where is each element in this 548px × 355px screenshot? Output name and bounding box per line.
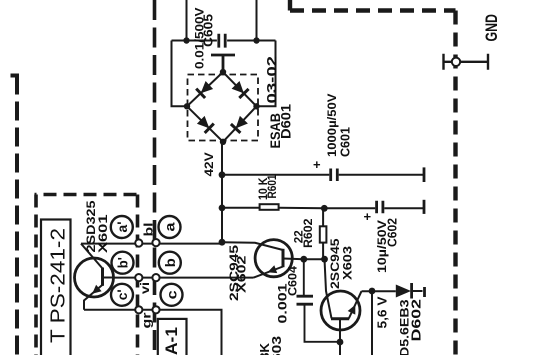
node 42V rail to X601 collector and X602 collector	[219, 239, 226, 246]
svg-text:03-02: 03-02	[265, 56, 280, 104]
svg-text:b': b'	[115, 257, 131, 268]
svg-text:0.001: 0.001	[276, 283, 290, 323]
diode zener D602	[396, 285, 411, 298]
wire 42V rail	[221, 142, 223, 242]
svg-text:1000µ/50V: 1000µ/50V	[325, 94, 339, 158]
node 42V rail to C601	[219, 171, 226, 178]
transformer module dashed box	[35, 195, 138, 355]
capacitor C602	[377, 201, 383, 213]
wire AC feed left	[186, 0, 188, 41]
node X602 base / C604	[300, 256, 307, 263]
resistor R602	[322, 208, 324, 259]
connector circle c	[161, 284, 183, 306]
wire AC feed right	[256, 0, 258, 41]
svg-text:gr: gr	[140, 312, 154, 328]
terminal D602 end	[423, 287, 426, 297]
wire X602 base to node	[283, 258, 325, 261]
node AC feed left junction	[183, 37, 189, 43]
transistor X601	[75, 244, 114, 310]
bridge diamond wires	[187, 72, 257, 142]
svg-text:+: +	[313, 157, 321, 172]
left module border	[11, 76, 20, 355]
diode bridge bottom-left D601c	[197, 116, 214, 133]
svg-text:GND: GND	[482, 14, 501, 42]
svg-text:R602: R602	[301, 218, 315, 248]
node X603 base	[337, 339, 344, 346]
pin bl module side	[135, 239, 142, 246]
svg-text:D601: D601	[279, 103, 294, 139]
wire C601 line	[222, 174, 424, 176]
svg-text:bl: bl	[142, 223, 156, 237]
node bridge right corner	[253, 103, 259, 109]
connector circle b	[159, 252, 181, 274]
svg-text:c: c	[164, 290, 180, 299]
pin vi board side	[152, 274, 159, 281]
diode bridge top-right D601b	[232, 81, 249, 98]
svg-text:X602: X602	[235, 255, 249, 293]
terminal C601 line end	[423, 167, 426, 182]
wire top horizontal with C605	[172, 40, 276, 42]
svg-text:R601: R601	[265, 174, 279, 198]
svg-text:T PS-241-2: T PS-241-2	[48, 228, 70, 343]
wire row1 bl collector	[81, 243, 222, 245]
svg-text:603: 603	[270, 336, 284, 355]
transformer box T PS-241-2	[41, 220, 71, 355]
wire row2 vi base	[114, 277, 254, 279]
pin vi module side	[135, 274, 142, 281]
svg-text:c': c'	[114, 289, 130, 300]
svg-text:5,6 V: 5,6 V	[376, 296, 390, 329]
connector circle a	[159, 216, 181, 238]
terminal C602 line end	[423, 200, 426, 214]
node AC feed right junction	[253, 37, 259, 43]
svg-text:D602: D602	[410, 299, 424, 342]
pin bl board side	[152, 239, 159, 246]
wire left side down	[172, 41, 188, 107]
connector box A-1	[158, 319, 187, 355]
GND terminal	[444, 54, 489, 70]
svg-text:X603: X603	[341, 246, 355, 280]
diode bridge bottom-right D601d	[231, 116, 248, 133]
wire right side down	[257, 41, 276, 107]
svg-text:C602: C602	[386, 218, 400, 247]
connector circle b'	[112, 252, 134, 274]
node X603 emitter / D602	[369, 288, 376, 295]
svg-text:a: a	[162, 222, 178, 231]
resistor R601	[260, 204, 279, 210]
svg-text:X601: X601	[96, 214, 110, 253]
svg-text:vi: vi	[138, 282, 152, 294]
capacitor C605	[219, 34, 225, 48]
transistor X602	[222, 240, 292, 278]
node bridge top corner	[220, 69, 226, 75]
node R602 top	[321, 205, 328, 212]
node R602 bottom / X603 collector	[321, 256, 328, 263]
connector pins open circles	[135, 58, 460, 314]
svg-text:42V: 42V	[202, 152, 216, 176]
connector circle a'	[111, 216, 133, 238]
diode bridge top-left D601a	[196, 81, 213, 98]
svg-text:b: b	[162, 258, 178, 267]
node 42V rail to R601	[219, 205, 226, 212]
svg-text:+: +	[364, 209, 372, 224]
wire emitter node D602	[362, 291, 423, 355]
connector circle c'	[111, 284, 133, 306]
wire R601/C602 line	[222, 207, 424, 210]
pin gr module side	[135, 306, 142, 313]
capacitor C604	[297, 259, 341, 342]
main center dashed line	[153, 0, 157, 355]
node bridge left corner	[184, 103, 190, 109]
pin GND feedthrough	[452, 58, 460, 66]
wire X603 base down	[339, 330, 341, 355]
svg-text:C605: C605	[202, 14, 216, 47]
right border dashed	[290, 0, 456, 355]
transistor X603	[321, 259, 362, 342]
bridge rectifier D601 dashed box	[188, 75, 259, 141]
svg-text:a': a'	[114, 222, 130, 233]
label circles a b c	[111, 216, 183, 306]
pin gr board side	[152, 306, 159, 313]
svg-text:C601: C601	[339, 127, 353, 157]
capacitor C601	[331, 169, 338, 182]
node bridge top terminal	[211, 55, 235, 72]
svg-text:A-1: A-1	[162, 327, 181, 355]
node bridge bottom corner 42V	[220, 139, 226, 145]
wire row3 gr emitter	[84, 310, 222, 355]
